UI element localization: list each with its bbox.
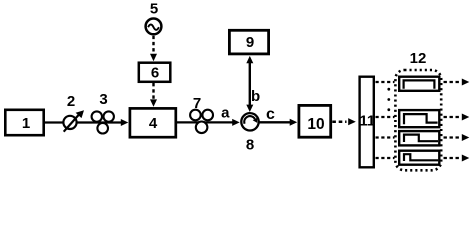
variable attenuator 2 — [63, 93, 84, 132]
svg-text:b: b — [251, 88, 260, 105]
block 11 — [359, 77, 375, 168]
channel box C — [399, 131, 439, 145]
svg-text:1: 1 — [22, 115, 30, 132]
svg-text:10: 10 — [307, 116, 324, 133]
channel box A — [399, 77, 439, 91]
block 1 — [5, 110, 43, 135]
dashed output arrow 1 — [444, 79, 470, 86]
dashed output arrow 4 — [444, 155, 470, 162]
polarization controller 7 — [190, 95, 213, 133]
dashed connector 11 to channel box D — [376, 157, 395, 159]
waveform A: full-width pulse — [404, 80, 435, 88]
block 6 — [139, 63, 171, 82]
ellipsis dots — [387, 88, 390, 111]
svg-text:12: 12 — [410, 50, 427, 67]
svg-text:7: 7 — [193, 95, 201, 112]
block 4 — [130, 108, 176, 137]
wire block1 to attenuator — [44, 121, 64, 123]
dashed connector 11 to channel box B — [376, 116, 395, 118]
channel box D — [399, 151, 439, 165]
svg-text:11: 11 — [359, 112, 375, 129]
svg-text:5: 5 — [150, 1, 158, 18]
svg-text:3: 3 — [99, 91, 107, 108]
waveform D: narrow pulse then low — [404, 154, 438, 161]
svg-text:a: a — [221, 104, 230, 121]
wire block 4 to circulator — [176, 121, 233, 123]
waveform B: pulse high then low — [404, 114, 438, 124]
arrowhead into circulator — [232, 119, 240, 126]
circulator 8 — [241, 113, 258, 154]
dashed connector 11 to channel box A — [376, 81, 395, 83]
wire controller 3 to block 4 — [92, 121, 123, 123]
AC source 5 — [146, 1, 162, 35]
dashed output arrow 2 — [444, 114, 470, 121]
block 9 — [229, 30, 268, 54]
double arrow b: block 9 to circulator — [246, 56, 260, 112]
dashed connector 11 to channel box C — [376, 136, 395, 138]
wire circulator to block 10 — [259, 121, 292, 123]
dashed line source 5 to block 6 — [152, 36, 154, 56]
svg-text:c: c — [266, 106, 275, 123]
polarization controller 3 — [92, 91, 114, 134]
wire attenuator to controller 3 — [77, 121, 92, 123]
svg-text:9: 9 — [246, 34, 254, 51]
svg-text:8: 8 — [246, 137, 254, 154]
svg-text:6: 6 — [151, 65, 159, 82]
waveform C: medium pulse then low — [404, 135, 438, 142]
dotted group box 12 — [395, 50, 441, 171]
svg-text:4: 4 — [149, 115, 158, 132]
dashed arrow block 10 to block 11 — [332, 120, 346, 123]
channel box B — [399, 110, 439, 127]
dashed output arrow 3 — [444, 134, 470, 141]
block 10 — [299, 105, 331, 137]
svg-text:2: 2 — [67, 93, 75, 110]
dashed line block 6 to block 4 — [152, 83, 154, 102]
